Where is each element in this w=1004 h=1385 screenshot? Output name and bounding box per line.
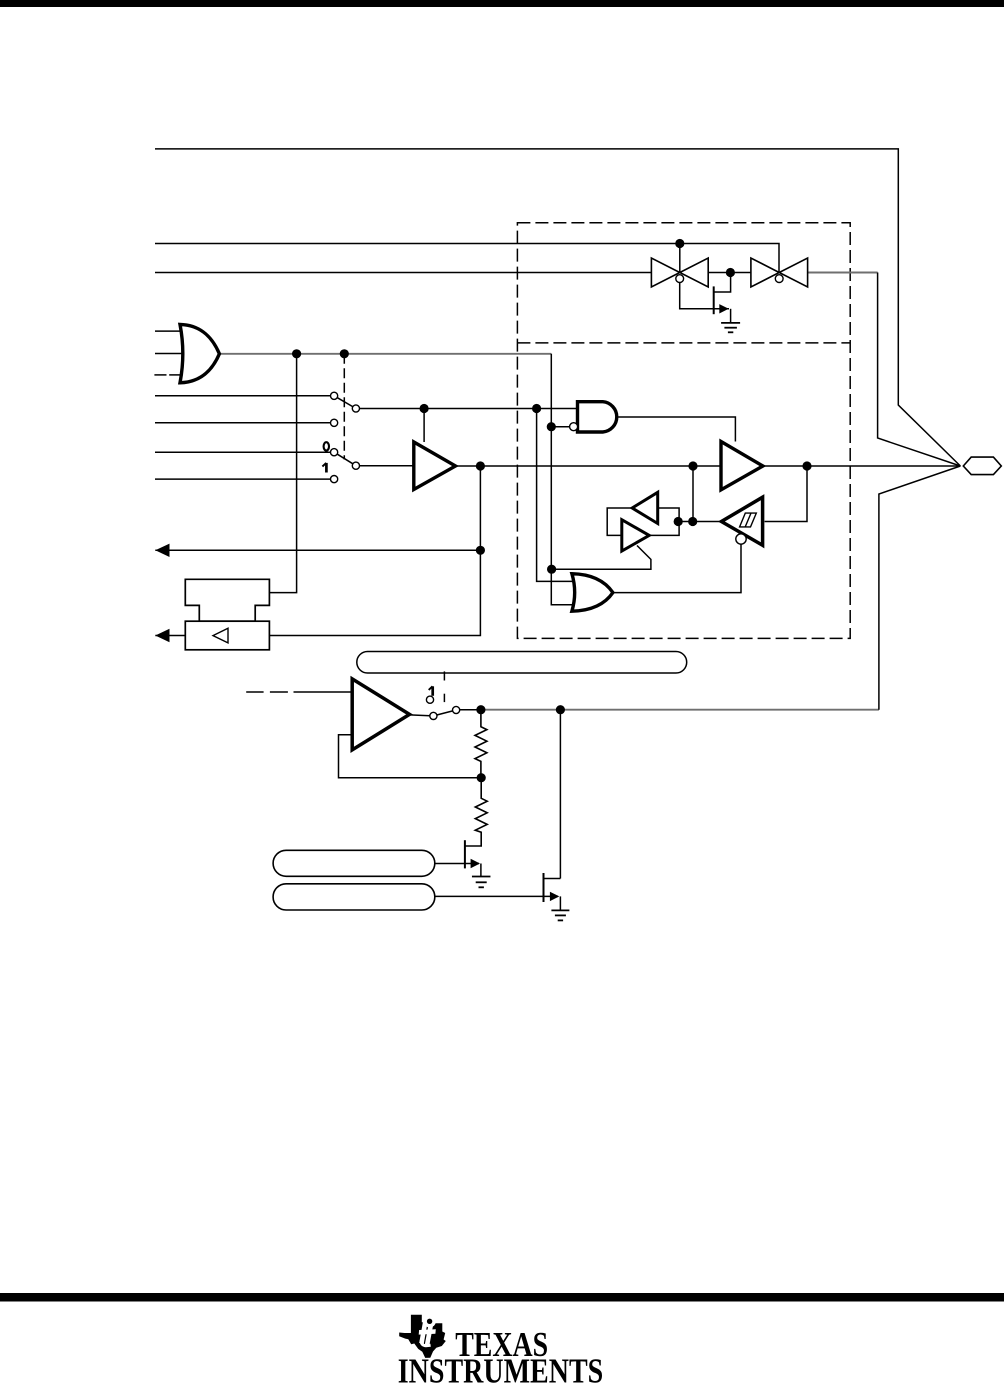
svg-text:INSTRUMENTS: INSTRUMENTS: [398, 1352, 604, 1385]
